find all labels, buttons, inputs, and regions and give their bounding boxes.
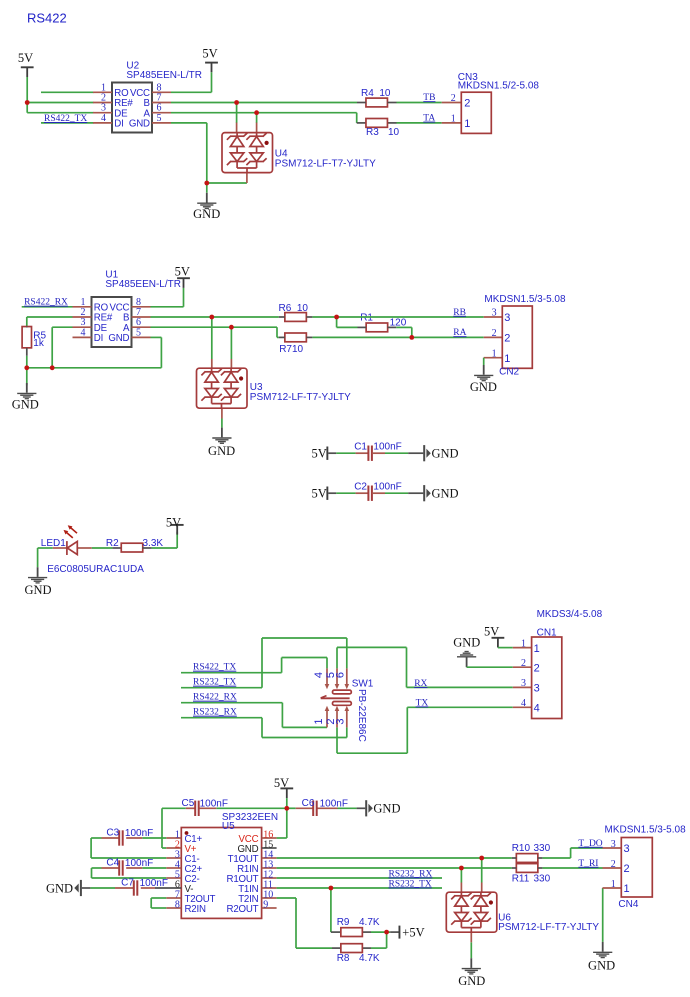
svg-text:C6: C6 [302, 798, 315, 809]
svg-text:RS232_RX: RS232_RX [389, 869, 433, 879]
svg-text:5V: 5V [274, 776, 289, 790]
svg-text:T_RI: T_RI [578, 859, 598, 869]
svg-text:PSM712-LF-T7-YJLTY: PSM712-LF-T7-YJLTY [250, 392, 351, 403]
svg-text:1: 1 [521, 638, 526, 649]
svg-text:3: 3 [624, 843, 630, 855]
svg-text:4.7K: 4.7K [359, 917, 380, 928]
svg-text:GND: GND [432, 447, 459, 461]
svg-text:GND: GND [24, 583, 51, 597]
svg-text:RS232_TX: RS232_TX [193, 678, 236, 688]
svg-text:100nF: 100nF [373, 442, 401, 453]
svg-text:SP485EEN-L/TR: SP485EEN-L/TR [105, 279, 181, 290]
svg-text:330: 330 [534, 874, 551, 885]
svg-text:GND: GND [193, 207, 220, 221]
svg-text:3.3K: 3.3K [143, 538, 164, 549]
svg-text:2: 2 [492, 328, 497, 339]
svg-text:10: 10 [388, 127, 400, 138]
svg-text:R1: R1 [360, 312, 373, 323]
svg-text:4.7K: 4.7K [359, 953, 380, 964]
svg-text:5V: 5V [175, 265, 190, 279]
svg-text:PB-22E86C: PB-22E86C [356, 689, 367, 742]
svg-text:6: 6 [335, 672, 347, 678]
svg-text:5V: 5V [312, 487, 327, 501]
svg-text:CN2: CN2 [499, 367, 519, 378]
svg-text:R10: R10 [512, 843, 531, 854]
svg-text:4: 4 [313, 672, 325, 678]
svg-text:U5: U5 [222, 821, 235, 832]
svg-text:RS232_TX: RS232_TX [389, 879, 432, 889]
svg-text:5V: 5V [202, 46, 217, 60]
svg-text:3: 3 [611, 839, 616, 850]
svg-text:100nF: 100nF [200, 799, 228, 810]
svg-text:R2: R2 [106, 538, 119, 549]
svg-text:RS422_TX: RS422_TX [193, 663, 236, 673]
svg-text:8: 8 [175, 899, 180, 910]
svg-text:R7: R7 [279, 344, 292, 355]
svg-text:2: 2 [504, 333, 510, 345]
svg-text:3: 3 [335, 718, 347, 724]
svg-text:C5: C5 [182, 798, 195, 809]
svg-text:MKDSN1.5/3-5.08: MKDSN1.5/3-5.08 [605, 825, 687, 836]
svg-text:GND: GND [46, 881, 73, 895]
svg-text:100nF: 100nF [125, 828, 153, 839]
svg-text:SW1: SW1 [352, 679, 374, 690]
svg-text:2: 2 [534, 662, 540, 674]
svg-text:R3: R3 [366, 127, 379, 138]
svg-text:1: 1 [611, 879, 616, 890]
svg-text:GND: GND [588, 959, 615, 973]
svg-text:1: 1 [624, 883, 630, 895]
svg-text:RS422_TX: RS422_TX [44, 114, 87, 124]
svg-text:R11: R11 [512, 874, 530, 885]
svg-text:C3: C3 [106, 828, 119, 839]
svg-text:RS422_RX: RS422_RX [193, 693, 237, 703]
svg-text:RS232_RX: RS232_RX [193, 708, 237, 718]
svg-text:CN4: CN4 [618, 899, 638, 910]
svg-text:CN1: CN1 [537, 628, 557, 639]
svg-text:LED1: LED1 [41, 538, 66, 549]
svg-text:GND: GND [432, 487, 459, 501]
svg-text:R9: R9 [337, 917, 350, 928]
svg-text:C2: C2 [354, 482, 367, 493]
svg-text:1: 1 [313, 718, 325, 724]
svg-text:1: 1 [504, 353, 510, 365]
svg-text:100nF: 100nF [373, 482, 401, 493]
svg-text:R4 10: R4 10 [361, 88, 391, 99]
svg-text:TA: TA [423, 114, 435, 124]
svg-text:100nF: 100nF [320, 799, 348, 810]
svg-text:R6 10: R6 10 [279, 303, 309, 314]
svg-text:100nF: 100nF [140, 878, 168, 889]
svg-text:10: 10 [292, 344, 304, 355]
svg-text:100nF: 100nF [125, 858, 153, 869]
svg-text:1: 1 [464, 118, 470, 130]
svg-text:3: 3 [504, 312, 510, 324]
svg-text:R2IN: R2IN [185, 904, 206, 915]
svg-text:T_DO: T_DO [578, 839, 602, 849]
svg-text:2: 2 [521, 658, 526, 669]
svg-text:5V: 5V [484, 624, 499, 638]
svg-text:TB: TB [423, 93, 435, 103]
svg-text:GND: GND [208, 444, 235, 458]
svg-text:330: 330 [534, 843, 551, 854]
svg-text:E6C0805URAC1UDA: E6C0805URAC1UDA [47, 564, 144, 575]
svg-text:4: 4 [534, 703, 540, 715]
svg-text:4: 4 [521, 698, 526, 709]
svg-text:3: 3 [492, 308, 497, 319]
svg-text:GND: GND [453, 636, 480, 650]
svg-text:MKDSN1.5/3-5.08: MKDSN1.5/3-5.08 [484, 294, 566, 305]
svg-text:1: 1 [534, 643, 540, 655]
svg-text:RS422_RX: RS422_RX [24, 298, 68, 308]
svg-text:R2OUT: R2OUT [227, 904, 259, 915]
svg-text:2: 2 [451, 93, 456, 104]
svg-text:RX: RX [414, 679, 427, 689]
svg-text:GND: GND [373, 802, 400, 816]
svg-text:GND: GND [470, 380, 497, 394]
svg-text:PSM712-LF-T7-YJLTY: PSM712-LF-T7-YJLTY [275, 158, 376, 169]
svg-text:RS422: RS422 [27, 11, 67, 26]
svg-text:1: 1 [451, 114, 456, 125]
svg-text:9: 9 [263, 899, 268, 910]
svg-text:MKDSN1.5/2-5.08: MKDSN1.5/2-5.08 [458, 81, 540, 92]
svg-text:+5V: +5V [402, 926, 424, 940]
svg-text:GND: GND [12, 398, 39, 412]
svg-text:RA: RA [453, 328, 466, 338]
svg-text:C4: C4 [106, 858, 119, 869]
svg-text:5V: 5V [166, 515, 181, 529]
svg-text:2: 2 [624, 863, 630, 875]
svg-text:5V: 5V [312, 447, 327, 461]
svg-text:3: 3 [534, 683, 540, 695]
svg-text:3: 3 [521, 678, 526, 689]
svg-text:2: 2 [611, 859, 616, 870]
svg-text:RB: RB [453, 308, 466, 318]
svg-text:MKDS3/4-5.08: MKDS3/4-5.08 [537, 609, 603, 620]
svg-text:GND: GND [458, 974, 485, 988]
svg-text:1: 1 [492, 348, 497, 359]
svg-text:2: 2 [464, 97, 470, 109]
svg-text:TX: TX [416, 698, 429, 708]
svg-text:R8: R8 [337, 953, 350, 964]
svg-text:PSM712-LF-T7-YJLTY: PSM712-LF-T7-YJLTY [498, 922, 599, 933]
svg-text:1k: 1k [33, 338, 45, 349]
svg-text:C7: C7 [121, 878, 134, 889]
svg-text:C1: C1 [354, 442, 367, 453]
svg-text:5V: 5V [18, 51, 33, 65]
svg-text:SP485EEN-L/TR: SP485EEN-L/TR [126, 70, 202, 81]
